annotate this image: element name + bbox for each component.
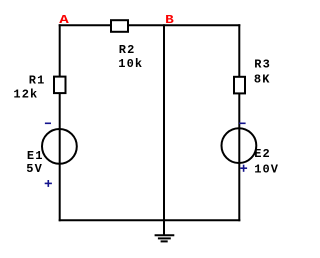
svg-text:R2: R2 [119,43,136,57]
wire top horizontal A to B to right corner [59,24,241,26]
svg-text:E2: E2 [254,147,271,161]
E2 plus polarity mark [240,165,247,172]
voltage source E1 circle [42,129,77,164]
voltage source E2 circle [222,128,257,163]
svg-text:10V: 10V [254,162,279,176]
svg-text:R3: R3 [254,58,271,72]
E1 minus polarity mark [45,122,51,124]
wire bottom horizontal [59,219,241,221]
wire middle branch vertical node B [163,24,165,221]
svg-text:E1: E1 [27,149,44,163]
E1 plus polarity mark [45,180,52,187]
svg-text:12k: 12k [13,88,38,102]
svg-text:B: B [165,13,175,27]
svg-text:A: A [59,14,70,28]
svg-text:10k: 10k [118,57,143,71]
resistor R1 body [54,77,66,94]
svg-text:8K: 8K [254,73,271,87]
E2 minus polarity mark [239,122,246,124]
ground symbol [155,220,175,241]
resistor R2 body [111,20,128,32]
resistor R3 body [234,77,245,94]
svg-text:R1: R1 [29,73,46,87]
svg-text:5V: 5V [26,162,43,176]
wire right branch vertical [238,24,240,221]
wire left branch vertical [59,24,61,221]
